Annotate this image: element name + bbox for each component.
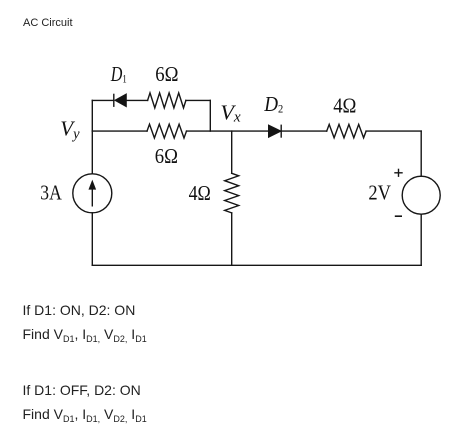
svg-text:3A: 3A [40, 180, 62, 204]
wire: middle riser from Vx down to 4ohm vertical resistor [231, 131, 233, 173]
wire: right riser of top branch down to Vx node [209, 100, 211, 131]
wire: middle branch through node Vx to D2 [187, 130, 269, 132]
wire: D2 to 4ohm resistor [281, 130, 327, 132]
resistor 4ohm right (zigzag) [327, 124, 366, 137]
current source I1 (3A) circle with up arrow [73, 174, 112, 213]
diode D1 (cathode bar left, triangle pointing left) [114, 94, 127, 107]
text line: Find VD1, ID1, VD2, ID1 (case D1 OFF) [23, 407, 147, 423]
wire: top branch right segment [186, 99, 210, 101]
wire: right side down to voltage source [420, 131, 422, 176]
wire: middle branch from Vy to bottom 6ohm resistor [92, 130, 147, 132]
wire: current source to bottom-left corner [91, 213, 93, 265]
wire: bottom rail [92, 264, 421, 266]
title: AC Circuit [23, 16, 73, 30]
text line: If D1: ON, D2: ON [23, 303, 136, 317]
svg-text:2V: 2V [368, 180, 391, 204]
resistor 4ohm middle vertical (zigzag) [225, 173, 239, 213]
wire: top branch left segment to D1 [92, 99, 114, 101]
wire: vertical resistor to bottom rail [231, 213, 233, 265]
wire: left riser Vy node up to top branch [91, 100, 93, 131]
svg-text:D1: D1 [110, 62, 127, 86]
resistor 6ohm bottom (zigzag) [147, 124, 187, 138]
wire: 4ohm resistor to top-right corner [366, 130, 421, 132]
svg-text:6Ω: 6Ω [155, 62, 178, 86]
wire: voltage source to bottom-right corner [420, 214, 422, 265]
wire: left side from Vy down to current source [91, 131, 93, 174]
svg-text:D2: D2 [263, 92, 283, 116]
svg-text:4Ω: 4Ω [333, 94, 356, 118]
resistor 6ohm top (zigzag) [148, 93, 186, 108]
voltage source V1 (2V) circle [402, 176, 440, 214]
wire: D1 to top 6ohm resistor [126, 99, 147, 101]
polarity minus sign of voltage source [396, 215, 402, 217]
svg-text:6Ω: 6Ω [155, 144, 178, 168]
text line: Find VD1, ID1, VD2, ID1 (case both ON) [23, 327, 147, 343]
diode D2 (triangle pointing right, cathode bar right) [269, 125, 282, 137]
polarity plus sign of voltage source [395, 169, 402, 176]
svg-text:4Ω: 4Ω [189, 181, 211, 205]
text line: If D1: OFF, D2: ON [23, 383, 141, 397]
svg-text:Vy: Vy [60, 117, 80, 143]
svg-text:Vx: Vx [220, 100, 241, 125]
